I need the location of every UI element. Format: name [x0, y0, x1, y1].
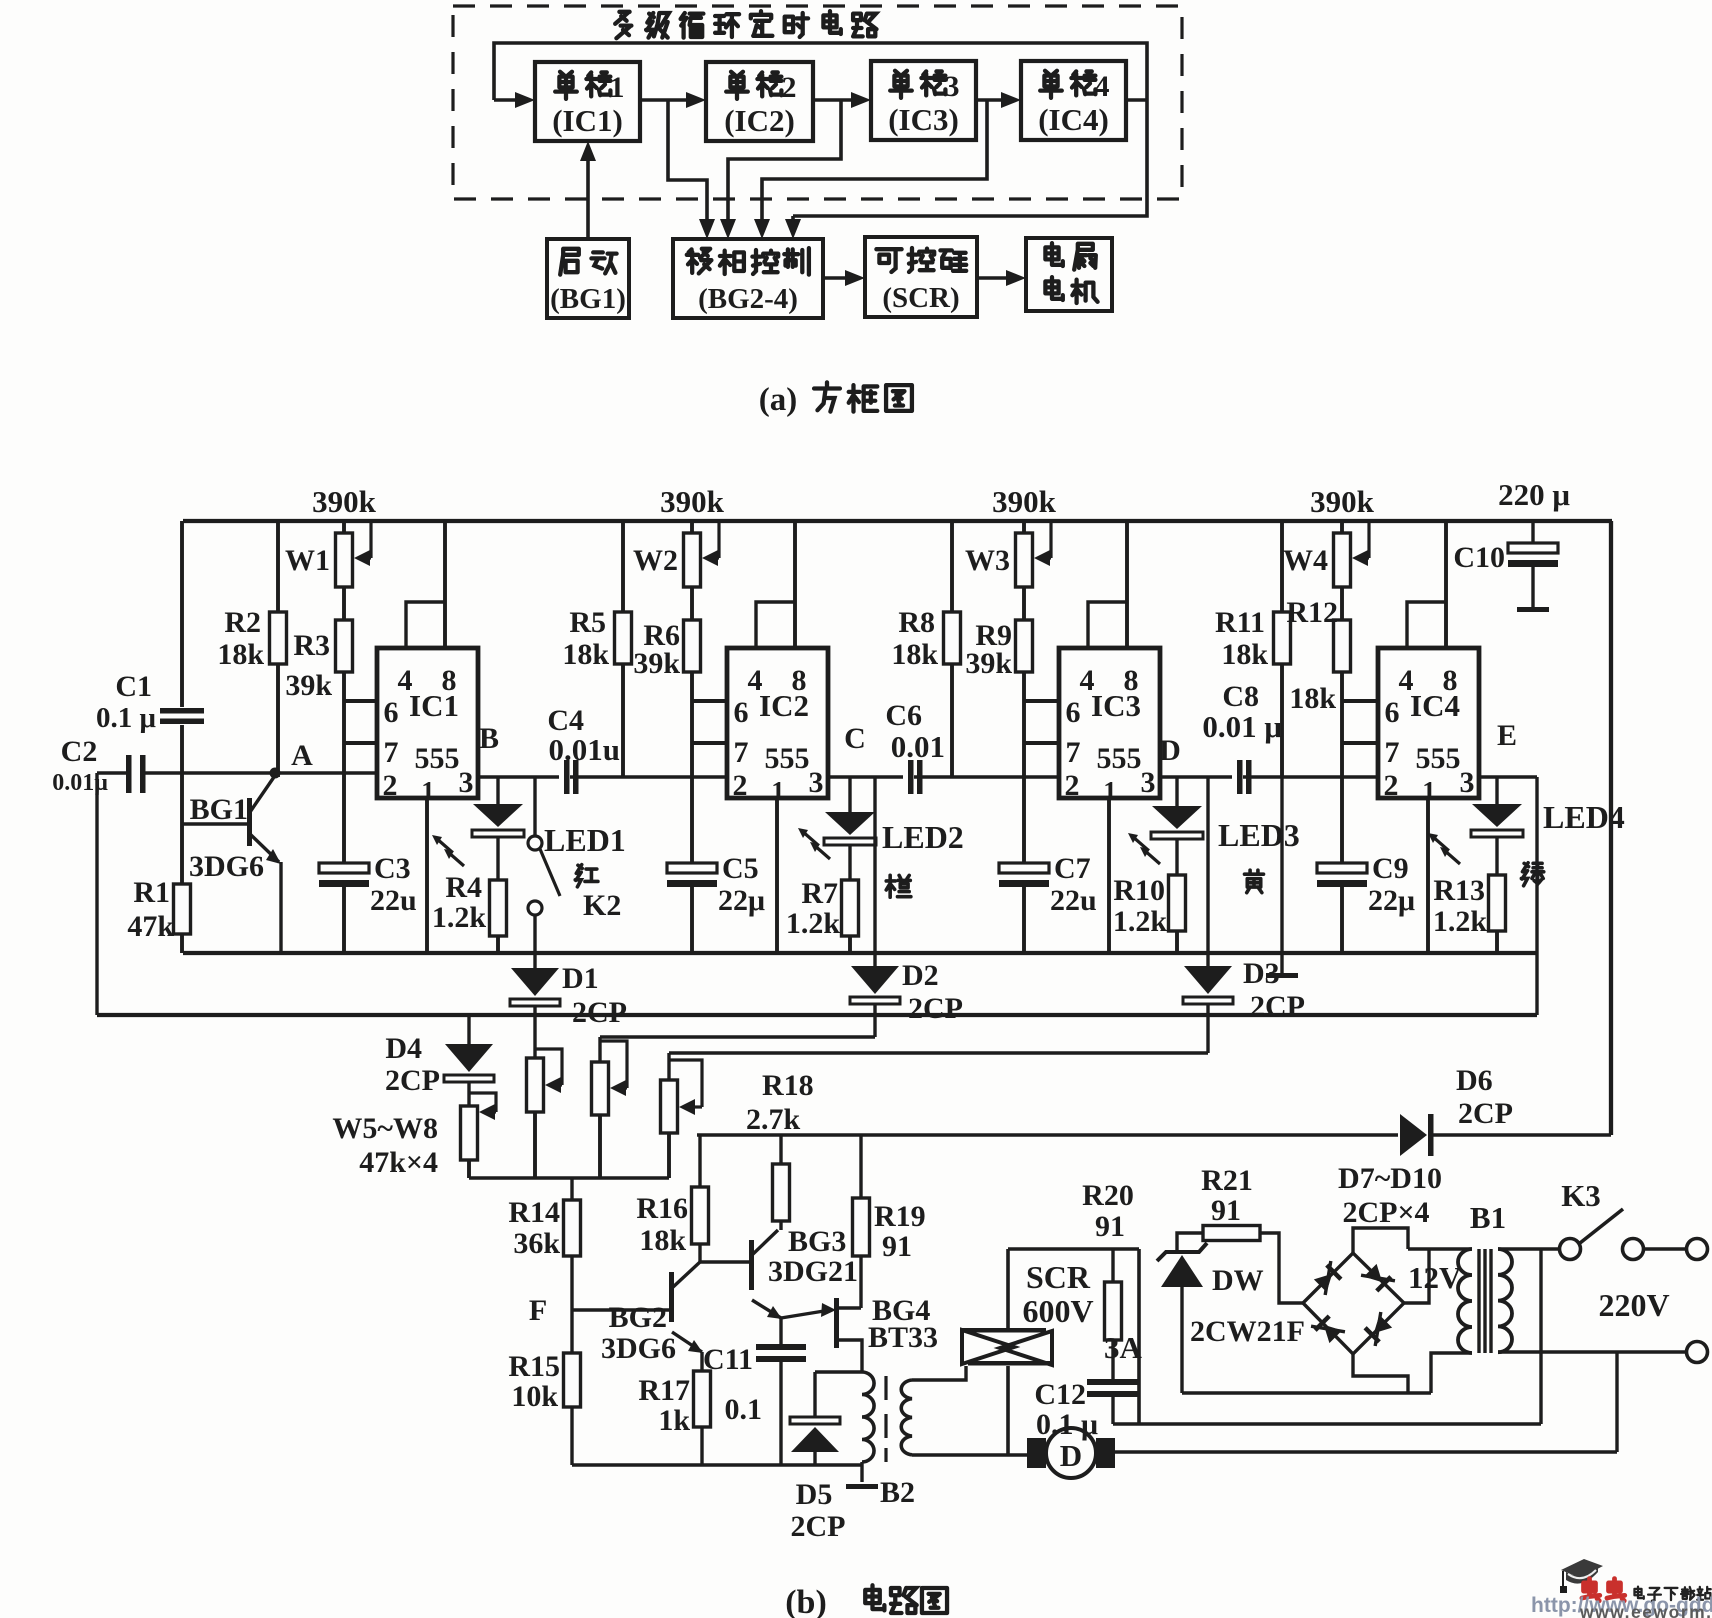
wire DW bottom line	[1182, 1391, 1431, 1394]
svg-text:3: 3	[459, 766, 474, 799]
wire top supply bus	[183, 519, 1612, 523]
watermark 虫虫 red characters	[1582, 1579, 1625, 1601]
resistor R5 18k	[562, 521, 631, 777]
diode D6 2CP	[1398, 1064, 1513, 1156]
svg-text:2CP×4: 2CP×4	[1342, 1196, 1429, 1229]
svg-text:6: 6	[384, 696, 399, 729]
potentiometer W7 47k	[592, 1037, 628, 1178]
resistor R4 1.2k	[432, 871, 507, 953]
svg-text:220V: 220V	[1598, 1287, 1669, 1323]
bridge rectifier D7~D10 2CP×4	[1303, 1162, 1442, 1393]
capacitor C9 22μ	[1317, 672, 1415, 953]
svg-text:2.7k: 2.7k	[746, 1103, 801, 1136]
label 390k for W2	[660, 484, 725, 519]
svg-text:390k: 390k	[992, 484, 1057, 519]
LED1 red	[432, 777, 626, 887]
svg-text:1k: 1k	[658, 1404, 690, 1437]
svg-text:R10: R10	[1113, 874, 1165, 907]
wire BG1 arrow up to 单稳1	[580, 141, 596, 239]
svg-text:22u: 22u	[370, 884, 417, 917]
capacitor C1 0.1μ	[96, 521, 204, 884]
svg-text:2CP: 2CP	[908, 992, 963, 1025]
wire second rail	[97, 1013, 1537, 1017]
diode D2 2CP	[850, 777, 963, 1037]
svg-text:0.1: 0.1	[725, 1393, 763, 1426]
svg-text:C3: C3	[374, 852, 411, 885]
svg-text:22u: 22u	[1050, 884, 1097, 917]
timer IC4 7555	[1378, 648, 1479, 806]
svg-text:IC2: IC2	[759, 688, 809, 723]
svg-text:B1: B1	[1470, 1200, 1506, 1235]
svg-text:0.01: 0.01	[891, 729, 945, 764]
svg-text:(b): (b)	[785, 1584, 827, 1618]
resistor R21 91	[1201, 1164, 1303, 1303]
wire 可控硅 to 电扇电机	[977, 270, 1026, 286]
potentiometer W4 390k	[1283, 521, 1369, 587]
timer IC1 7555	[377, 648, 478, 806]
svg-text:(BG1): (BG1)	[550, 283, 626, 315]
svg-text:LED3: LED3	[1218, 817, 1300, 853]
svg-text:91: 91	[1095, 1210, 1125, 1243]
wire feedback loop top	[494, 43, 1147, 216]
svg-text:D6: D6	[1456, 1064, 1493, 1097]
wire pots bottom line	[469, 1176, 669, 1179]
svg-text:IC1: IC1	[409, 688, 459, 723]
node A and A-line from C2 to IC1 pin2	[143, 739, 377, 779]
svg-text:B2: B2	[880, 1476, 915, 1509]
wire pin 1 of IC2 to rail	[775, 798, 779, 953]
svg-text:0.01u: 0.01u	[549, 732, 621, 767]
switch K2	[528, 777, 621, 953]
svg-text:C12: C12	[1034, 1378, 1086, 1411]
svg-text:2: 2	[1065, 769, 1080, 802]
svg-text:4: 4	[1095, 70, 1110, 103]
svg-text:LED1: LED1	[544, 822, 626, 858]
svg-text:(IC2): (IC2)	[724, 103, 795, 138]
svg-text:R4: R4	[445, 871, 482, 904]
svg-text:D1: D1	[562, 962, 599, 995]
svg-text:W5~W8: W5~W8	[332, 1112, 438, 1145]
LED3 yellow	[1128, 777, 1300, 893]
svg-text:R19: R19	[874, 1200, 926, 1233]
svg-text:1.2k: 1.2k	[1433, 905, 1488, 938]
svg-text:3: 3	[945, 70, 960, 103]
resistor R10 1.2k	[1113, 874, 1186, 953]
svg-text:R8: R8	[898, 606, 935, 639]
watermark logo graduation cap	[1560, 1559, 1603, 1593]
wire pins 4,8 of IC1 to bus	[406, 521, 445, 648]
diode D3 2CP	[1183, 777, 1305, 1053]
resistor R7 1.2k	[786, 877, 859, 953]
wire 单稳4 to feedback rail	[785, 100, 1147, 239]
svg-text:R20: R20	[1082, 1179, 1134, 1212]
svg-text:R13: R13	[1433, 874, 1485, 907]
svg-text:0.01 μ: 0.01 μ	[1202, 709, 1282, 744]
svg-text:7: 7	[734, 736, 749, 769]
timer IC2 7555	[727, 648, 828, 806]
svg-text:3A: 3A	[1104, 1330, 1143, 1365]
svg-text:R7: R7	[801, 877, 838, 910]
svg-text:390k: 390k	[312, 484, 377, 519]
svg-text:555: 555	[1416, 742, 1461, 775]
wire pin 1 of IC3 to rail	[1107, 798, 1111, 953]
svg-text:7: 7	[384, 736, 399, 769]
diode D1 2CP	[510, 953, 627, 1029]
svg-text:(IC1): (IC1)	[552, 103, 623, 138]
svg-text:3: 3	[1460, 766, 1475, 799]
potentiometer W2 390k	[633, 521, 719, 587]
svg-text:0.01μ: 0.01μ	[52, 770, 108, 796]
resistor R9 39k	[965, 587, 1032, 680]
svg-text:1: 1	[610, 71, 625, 104]
svg-text:IC3: IC3	[1091, 688, 1141, 723]
block 启动 (BG1)	[547, 239, 629, 318]
wire pins 6,7 of IC2	[692, 701, 727, 743]
node F	[529, 1294, 547, 1327]
wire phase-control bus with D6	[697, 1133, 1611, 1137]
wire pin 1 of IC1 to rail	[425, 798, 429, 953]
transistor BG3 3DG21	[700, 1225, 858, 1319]
svg-text:IC4: IC4	[1410, 688, 1460, 723]
svg-text:2: 2	[782, 71, 797, 104]
svg-text:BG1: BG1	[190, 793, 248, 826]
svg-text:W1: W1	[285, 544, 330, 577]
svg-text:R3: R3	[293, 629, 330, 662]
block diagram dashed border	[453, 6, 1182, 199]
svg-text:C1: C1	[115, 670, 152, 703]
220V mains terminals	[1498, 1287, 1708, 1363]
LED4 green	[1428, 777, 1625, 886]
svg-text:6: 6	[1385, 696, 1400, 729]
wire pins 6,7 of IC4	[1342, 701, 1378, 743]
resistor R3 39k	[285, 587, 352, 702]
resistor R6 39k	[633, 587, 700, 680]
svg-text:(a): (a)	[759, 382, 797, 418]
svg-text:www.eeworm.com: www.eeworm.com	[1579, 1602, 1712, 1618]
wire pins 4,8 of IC2 to bus	[756, 521, 795, 648]
svg-text:600V: 600V	[1022, 1293, 1093, 1329]
svg-text:R17: R17	[638, 1374, 690, 1407]
svg-text:R14: R14	[508, 1196, 560, 1229]
label 390k for W1	[312, 484, 377, 519]
wire IC3 pin3 line to IC4 (node D)	[1159, 734, 1378, 777]
svg-text:1.2k: 1.2k	[786, 907, 841, 940]
wire line from D2 to W7	[600, 1035, 875, 1038]
svg-text:R1: R1	[133, 876, 170, 909]
svg-text:DW: DW	[1212, 1264, 1264, 1297]
svg-text:C10: C10	[1453, 541, 1505, 574]
svg-text:C2: C2	[61, 735, 98, 768]
svg-text:K2: K2	[583, 889, 621, 922]
svg-text:6: 6	[734, 696, 749, 729]
capacitor C5 22μ	[667, 672, 765, 953]
pulse transformer B2	[815, 1372, 915, 1509]
label 390k for W4	[1310, 484, 1375, 519]
wire IC2 pin3 line to IC3 (node C)	[828, 722, 1059, 777]
wire arrow into 单稳1	[494, 92, 535, 108]
svg-text:18k: 18k	[1221, 638, 1268, 671]
wire IC1 pin3 line to IC2 (node B)	[478, 722, 727, 777]
caption (a) 方框图	[759, 382, 912, 418]
svg-text:W4: W4	[1283, 544, 1328, 577]
wire pins 4,8 of IC3 to bus	[1088, 521, 1127, 648]
svg-text:18k: 18k	[1289, 682, 1336, 715]
svg-text:R11: R11	[1215, 606, 1265, 639]
svg-text:(IC4): (IC4)	[1038, 102, 1109, 137]
wire bottom rail	[572, 1463, 862, 1466]
resistor R14 36k	[508, 1178, 580, 1353]
diode D5 2CP	[790, 1372, 846, 1543]
svg-text:47k×4: 47k×4	[359, 1146, 438, 1179]
wire 单稳3 to 单稳4 with junction drop	[754, 92, 1021, 239]
svg-text:D: D	[1060, 1438, 1082, 1473]
svg-text:3: 3	[1141, 766, 1156, 799]
wire 单稳2 to 单稳3 with junction drop	[720, 92, 871, 239]
svg-text:R16: R16	[636, 1192, 688, 1225]
resistor R2 18k	[217, 521, 286, 777]
capacitor C2 0.01μ	[52, 735, 145, 796]
block 移相控制 (BG2-4)	[673, 239, 823, 318]
diode D4 2CP	[385, 1015, 494, 1106]
triac symbol	[960, 1328, 1143, 1455]
svg-text:R2: R2	[224, 606, 261, 639]
wire B2 secondary to SCR gate and cathode	[912, 1366, 1027, 1455]
svg-text:2: 2	[383, 769, 398, 802]
svg-text:R12: R12	[1286, 596, 1338, 629]
svg-text:B: B	[479, 722, 499, 755]
svg-text:6: 6	[1066, 696, 1081, 729]
title 多级循环定时电路	[615, 11, 876, 38]
LED2 orange	[798, 777, 964, 897]
wire pins 6,7 of IC3	[1024, 701, 1059, 743]
svg-text:A: A	[291, 739, 313, 772]
svg-text:LED4: LED4	[1543, 799, 1625, 835]
svg-text:2CW21F: 2CW21F	[1190, 1315, 1305, 1348]
block 可控硅 (SCR)	[865, 237, 977, 317]
svg-text:390k: 390k	[1310, 484, 1375, 519]
svg-text:18k: 18k	[562, 638, 609, 671]
capacitor C7 22u	[999, 672, 1097, 953]
svg-text:BT33: BT33	[868, 1321, 938, 1354]
svg-text:39k: 39k	[285, 669, 332, 702]
wire line from D3 to W8	[669, 1051, 1208, 1054]
svg-text:22μ: 22μ	[1368, 884, 1415, 917]
resistor R16 18k	[636, 1135, 708, 1262]
svg-text:7: 7	[1385, 736, 1400, 769]
svg-text:BG3: BG3	[788, 1225, 846, 1258]
resistor R19 91	[853, 1135, 926, 1308]
svg-text:K3: K3	[1561, 1178, 1601, 1213]
svg-text:(SCR): (SCR)	[882, 282, 959, 314]
capacitor C12 0.1μ	[1034, 1378, 1139, 1441]
svg-text:C5: C5	[722, 852, 759, 885]
svg-text:47k: 47k	[127, 910, 174, 943]
svg-text:R15: R15	[508, 1350, 560, 1383]
svg-text:R21: R21	[1201, 1164, 1253, 1197]
svg-text:(IC3): (IC3)	[888, 102, 959, 137]
motor D	[1027, 1352, 1617, 1478]
svg-text:12V: 12V	[1408, 1260, 1462, 1295]
svg-text:SCR: SCR	[1026, 1259, 1091, 1295]
svg-text:D5: D5	[796, 1478, 833, 1511]
wire 单稳1 to 单稳2 with junction drop	[640, 92, 715, 239]
svg-text:7: 7	[1066, 736, 1081, 769]
svg-text:91: 91	[882, 1230, 912, 1263]
zener diode DW 2CW21F	[1157, 1233, 1305, 1393]
svg-text:18k: 18k	[891, 638, 938, 671]
transistor BG1 3DG6	[182, 777, 281, 953]
svg-text:C7: C7	[1054, 852, 1091, 885]
svg-text:D: D	[1159, 734, 1181, 767]
svg-text:18k: 18k	[217, 638, 264, 671]
block 单稳1 (IC1)	[535, 62, 640, 141]
svg-text:2CP: 2CP	[1250, 990, 1305, 1023]
capacitor C8 0.01μ	[1202, 680, 1282, 794]
block 单稳4 (IC4)	[1021, 61, 1126, 140]
svg-text:0.1 μ: 0.1 μ	[96, 702, 157, 734]
wire pins 4,8 of IC4 to bus	[1407, 521, 1446, 648]
thyristor SCR 600V 3A box	[1008, 1249, 1139, 1424]
capacitor C10 220μ	[1453, 477, 1570, 612]
wire pin 1 of IC4 to rail	[1426, 798, 1430, 953]
resistor R12 18k	[1286, 587, 1350, 715]
svg-text:W2: W2	[633, 544, 678, 577]
timer IC3 7555	[1059, 648, 1160, 806]
resistor R8 18k	[891, 521, 960, 777]
capacitor C4 0.01u	[547, 704, 620, 794]
svg-text:2CP: 2CP	[572, 996, 627, 1029]
potentiometer W3 390k	[965, 521, 1051, 587]
potentiometer W6 47k	[527, 1015, 563, 1178]
wire riser joining E line to rails	[1535, 777, 1538, 1015]
wire IC4 pin3 E line	[1478, 719, 1537, 777]
capacitor C6 0.01	[885, 699, 945, 794]
block 电扇电机	[1026, 238, 1112, 311]
transistor BG2 3DG6	[572, 1262, 703, 1371]
svg-text:W3: W3	[965, 544, 1010, 577]
resistor R15 10k	[508, 1350, 580, 1465]
resistor R1 47k	[127, 876, 190, 953]
svg-text:2: 2	[1384, 769, 1399, 802]
wire 移相控制 to 可控硅	[823, 270, 865, 286]
wire SCR cathode line to mains riser	[1113, 1249, 1541, 1424]
wire rail below stages	[183, 951, 1537, 955]
potentiometer W8 47k	[661, 1053, 703, 1178]
label 390k for W3	[992, 484, 1057, 519]
svg-text:2CP: 2CP	[791, 1510, 846, 1543]
svg-text:555: 555	[1097, 742, 1142, 775]
svg-text:(BG2-4): (BG2-4)	[698, 283, 798, 315]
svg-text:F: F	[529, 1294, 547, 1327]
svg-text:D4: D4	[385, 1032, 422, 1065]
svg-text:390k: 390k	[660, 484, 725, 519]
svg-text:R18: R18	[762, 1069, 814, 1102]
resistor R17 1k	[638, 1371, 710, 1465]
svg-text:C6: C6	[885, 699, 922, 732]
watermark 电子下载站	[1634, 1587, 1710, 1601]
transformer B1 12V/220V	[1408, 1200, 1512, 1393]
svg-text:91: 91	[1211, 1194, 1241, 1227]
svg-text:10k: 10k	[511, 1380, 558, 1413]
watermark urls	[1531, 1594, 1712, 1618]
svg-text:C11: C11	[703, 1343, 753, 1376]
svg-text:555: 555	[415, 742, 460, 775]
svg-text:C9: C9	[1372, 852, 1409, 885]
wire pins 6,7 of IC1	[344, 701, 377, 743]
svg-text:3DG21: 3DG21	[768, 1255, 858, 1288]
svg-text:39k: 39k	[633, 647, 680, 680]
potentiometer W5 47k	[461, 1093, 497, 1178]
svg-text:18k: 18k	[639, 1224, 686, 1257]
svg-text:2CP: 2CP	[385, 1064, 440, 1097]
svg-text:3: 3	[809, 766, 824, 799]
resistor R18 2.7k	[746, 1069, 814, 1230]
svg-text:LED2: LED2	[882, 819, 964, 855]
capacitor C3 22u	[319, 672, 417, 953]
svg-text:36k: 36k	[513, 1227, 560, 1260]
block 单稳2 (IC2)	[706, 62, 813, 141]
svg-text:2: 2	[733, 769, 748, 802]
block 单稳3 (IC3)	[871, 61, 976, 140]
svg-text:1.2k: 1.2k	[432, 901, 487, 934]
svg-text:555: 555	[765, 742, 810, 775]
svg-text:D2: D2	[902, 959, 939, 992]
resistor R11 18k	[1215, 521, 1291, 777]
unijunction transistor BG4 BT33	[781, 1294, 938, 1372]
svg-text:22μ: 22μ	[718, 884, 765, 917]
label W5~W8 47k×4	[332, 1112, 438, 1179]
svg-text:BG2: BG2	[609, 1301, 667, 1334]
svg-text:1.2k: 1.2k	[1113, 905, 1168, 938]
switch K3	[1498, 1178, 1708, 1260]
svg-text:E: E	[1497, 719, 1517, 752]
svg-text:39k: 39k	[965, 647, 1012, 680]
svg-text:C: C	[844, 722, 866, 755]
svg-text:R5: R5	[569, 606, 606, 639]
svg-text:3DG6: 3DG6	[601, 1332, 676, 1365]
resistor R13 1.2k	[1433, 874, 1506, 953]
wire left edge from C2 down to second rail	[95, 773, 98, 1015]
svg-text:2CP: 2CP	[1458, 1097, 1513, 1130]
potentiometer W1 390k	[285, 521, 371, 587]
ground bar under R11 column	[1266, 777, 1298, 978]
svg-text:220 μ: 220 μ	[1498, 477, 1570, 512]
capacitor C11 0.1	[703, 1318, 806, 1465]
svg-text:D7~D10: D7~D10	[1338, 1162, 1442, 1195]
wire right supply bus	[1609, 521, 1613, 1135]
caption (b) 电路图	[785, 1584, 947, 1618]
svg-text:3DG6: 3DG6	[189, 850, 264, 883]
resistor R20 91	[1082, 1179, 1134, 1379]
